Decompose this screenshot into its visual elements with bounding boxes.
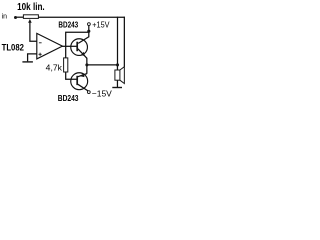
wire: output node to speaker horizontal (87, 64, 118, 66)
svg-text:in: in (2, 14, 8, 21)
wire: lower emitter diagonal from rail to base bar (78, 74, 87, 77)
wire: lower collector diagonal to -15V terminal (78, 84, 88, 91)
transistor Q1 emitter arrow (81, 52, 85, 56)
speaker LS1 body (115, 70, 120, 80)
svg-text:TL082: TL082 (2, 43, 24, 53)
svg-text:+15V: +15V (92, 21, 110, 30)
wire: op-amp output to upper transistor base (62, 45, 77, 47)
wire: speaker bottom stem to ground (116, 80, 118, 87)
ground at op-amp + input (22, 61, 33, 63)
potentiometer wiper arrow (28, 19, 32, 23)
transistor Q1 base bar (76, 42, 78, 52)
wire: output rail between transistors (86, 58, 88, 74)
wire: wiper stem down to inverting input (30, 21, 37, 41)
background (0, 0, 130, 107)
wire: speaker top stem (116, 65, 118, 70)
speaker cone (120, 67, 124, 84)
ground at speaker (112, 87, 122, 89)
wire: input to potentiometer (15, 16, 23, 18)
svg-text:BD243: BD243 (58, 93, 79, 103)
potentiometer R1 10k body (23, 15, 38, 19)
node: output rail dot (85, 63, 88, 66)
op-amp plus sign (39, 53, 42, 55)
+15V terminal circle (88, 23, 91, 26)
transistor Q1 BD243 upper circle (71, 39, 88, 56)
wire: right vertical drop x=124.3 down to speaker cone (123, 17, 125, 67)
wire: +15V terminal stub (88, 25, 90, 30)
node: dot at +15V feed (87, 30, 90, 33)
svg-text:10k lin.: 10k lin. (17, 2, 45, 13)
wire: bias bus from +15V dot left then down through output wire to resistor (66, 32, 89, 58)
node: speaker tap dot (116, 63, 119, 66)
svg-text:4,7k: 4,7k (46, 63, 62, 72)
wire: non-inverting input to ground (28, 54, 37, 62)
transistor Q2 base bar (76, 76, 78, 85)
wire: vertical x=117.5 from top rail down to output node (117, 17, 119, 65)
-15V terminal circle (87, 91, 90, 94)
op-amp U1 TL082 triangle (37, 33, 63, 59)
node: input terminal dot (14, 16, 17, 19)
wire: below resistor down and right to lower transistor base (66, 72, 77, 79)
svg-text:BD243: BD243 (58, 20, 78, 30)
svg-text:−15V: −15V (92, 88, 112, 98)
wire: long top rail from pot right terminal to far right (38, 16, 125, 18)
op-amp minus sign (39, 42, 42, 44)
wire: upper collector diagonal from +15V dot (78, 32, 89, 44)
transistor Q2 emitter arrow (PNP, points to base) (80, 73, 84, 77)
wire: upper emitter diagonal to output rail (78, 49, 87, 58)
resistor R2 4,7k body (64, 58, 68, 72)
transistor Q2 BD243 lower circle (71, 73, 88, 90)
